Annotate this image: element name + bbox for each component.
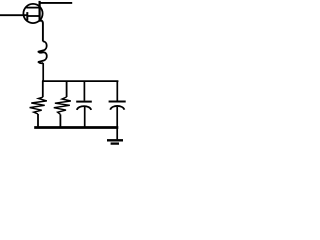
ground bar narrow <box>111 142 119 144</box>
wire C1 top lead <box>83 81 85 101</box>
transistor Q1 upper stub <box>26 7 39 9</box>
node top bus <box>42 80 118 82</box>
wire R1 top lead <box>42 81 44 97</box>
transistor Q1 channel bar <box>38 1 40 21</box>
wire drain lead to top right <box>40 2 73 4</box>
wire source bend down <box>41 20 43 41</box>
capacitor C1 curved plate <box>77 106 91 110</box>
wire R1 bottom lead <box>37 114 39 128</box>
wire R2 bottom lead <box>59 114 61 127</box>
wire inductor to top bus <box>42 63 44 81</box>
wire gate lead from left edge <box>0 14 27 16</box>
capacitor C2 top plate <box>109 101 126 103</box>
transistor Q1 envelope circle <box>23 4 42 23</box>
node bottom bus <box>34 126 118 129</box>
capacitor C2 curved plate <box>110 106 124 110</box>
resistor R2 <box>54 97 71 114</box>
resistor R1 <box>30 97 47 114</box>
junction dot source <box>39 19 42 22</box>
capacitor C1 top plate <box>76 101 92 103</box>
wire R2 top lead <box>66 81 68 97</box>
wire C2 top lead <box>116 81 118 100</box>
transistor Q1 gate bar <box>26 12 28 20</box>
wire C1 bottom lead <box>84 107 86 128</box>
transistor Q1 source stub <box>40 19 41 21</box>
wire C2 bottom lead to ground <box>116 107 118 140</box>
ground bar wide <box>107 139 123 141</box>
transistor Q1 lower gate stub <box>27 15 39 17</box>
inductor L1 <box>38 41 47 63</box>
